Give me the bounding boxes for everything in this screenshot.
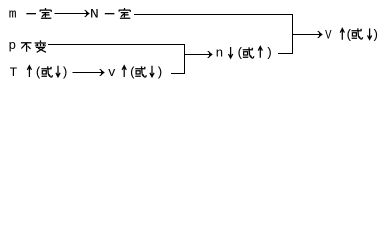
- svg-text:n: n: [216, 46, 224, 61]
- up arrow: [340, 29, 344, 40]
- CJK ding: [119, 8, 131, 18]
- svg-text:m: m: [9, 7, 17, 22]
- CJK huo (or): [41, 66, 52, 77]
- svg-text:): ): [265, 46, 273, 61]
- svg-text:p: p: [8, 38, 16, 53]
- wire tick from n to right vertical: [278, 53, 293, 54]
- wire top long line: [134, 14, 293, 15]
- svg-text:): ): [372, 28, 380, 43]
- wire left vertical: [184, 44, 185, 74]
- CJK ding (fixed): [40, 8, 52, 18]
- CJK huo: [135, 66, 146, 77]
- up arrow: [258, 47, 262, 58]
- svg-text:): ): [61, 65, 69, 80]
- svg-text:(: (: [236, 46, 244, 61]
- arrow to n: [184, 54, 210, 55]
- CJK yi: [105, 13, 115, 14]
- svg-text:V: V: [325, 28, 332, 43]
- arrow to V: [292, 34, 320, 35]
- CJK bu (not): [21, 43, 32, 52]
- CJK yi (one/constant): [26, 13, 36, 14]
- svg-text:v: v: [108, 65, 116, 80]
- svg-text:T: T: [10, 65, 18, 80]
- svg-text:N: N: [90, 7, 99, 22]
- down arrow: [229, 47, 233, 58]
- svg-text:): ): [156, 65, 164, 80]
- svg-text:(: (: [35, 65, 43, 80]
- down arrow: [150, 66, 154, 77]
- CJK huo: [243, 47, 254, 58]
- up arrow: [122, 66, 126, 77]
- wire tick to left vertical: [171, 73, 185, 74]
- down arrow: [368, 28, 372, 39]
- CJK huo: [352, 28, 363, 39]
- arrow T to v: [73, 72, 103, 73]
- up arrow: [27, 66, 31, 77]
- svg-text:(: (: [129, 65, 137, 80]
- wire right vertical: [292, 14, 293, 54]
- wire p line: [48, 44, 185, 45]
- CJK bian (change): [35, 40, 46, 52]
- arrow m to N: [55, 13, 87, 14]
- down arrow: [56, 66, 60, 77]
